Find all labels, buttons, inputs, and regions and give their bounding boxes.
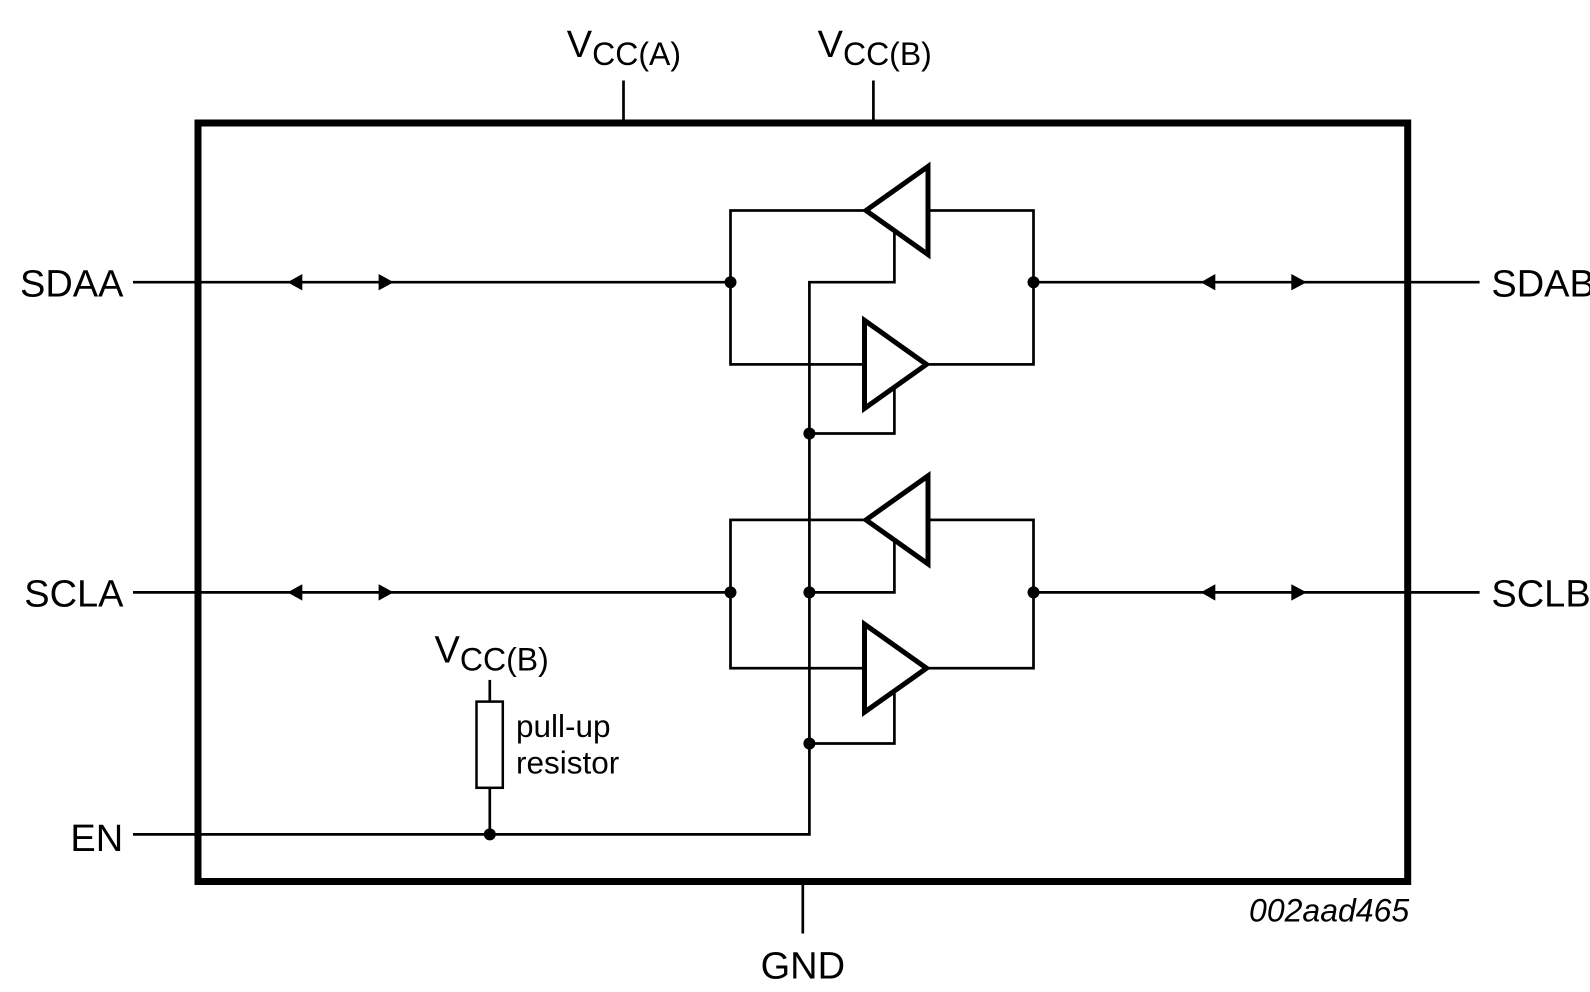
wire resistor to EN line <box>488 788 491 835</box>
arrowhead SDAB right <box>1291 274 1306 290</box>
wire SCLA (pin A side, y=592) <box>133 591 731 594</box>
pin stub VCC(B) <box>872 81 875 124</box>
wire SDA lower buffer enable return <box>809 372 894 434</box>
junction dot SDAA node <box>725 276 737 288</box>
svg-text:SDAB: SDAB <box>1491 263 1590 305</box>
junction dot enable net SDA return <box>803 428 815 440</box>
junction dot SCLB node <box>1028 586 1040 598</box>
svg-text:pull-up: pull-up <box>516 708 611 744</box>
pin stub GND <box>801 882 804 934</box>
wire SDA buffer loop rectangle <box>731 211 1034 365</box>
junction dot EN / resistor <box>484 828 496 840</box>
junction dot SDAB node <box>1028 276 1040 288</box>
svg-text:GND: GND <box>761 946 845 988</box>
arrowhead SCLA right <box>379 584 394 600</box>
pin stub VCC(A) <box>622 81 625 124</box>
junction dot SCLA node <box>725 586 737 598</box>
pull-up resistor body <box>477 702 503 788</box>
wire SCLB (pin B side, y=592) <box>1034 591 1480 594</box>
wire jog SCL upper buffer enable <box>809 535 894 592</box>
wire VCC(B) stub above resistor <box>488 680 491 702</box>
arrowhead SCLA left <box>288 584 303 600</box>
wire EN with enable net vertical and jog to SDA upper buffer enable <box>133 225 894 834</box>
buffer amp A4 (SCL, A-to-B, points right) <box>865 624 927 712</box>
arrowhead SDAA right <box>379 274 394 290</box>
buffer amp A1 (SDA, B-to-A, points left) <box>866 167 928 255</box>
IC outline box <box>198 123 1408 882</box>
junction dot enable net SCL return <box>803 738 815 750</box>
svg-text:SCLB: SCLB <box>1491 573 1590 615</box>
wire SCL buffer loop rectangle <box>731 520 1034 668</box>
svg-text:EN: EN <box>70 818 123 860</box>
svg-text:resistor: resistor <box>516 745 619 781</box>
svg-text:SCLA: SCLA <box>24 573 124 615</box>
arrowhead SDAA left <box>288 274 303 290</box>
arrowhead SCLB right <box>1291 584 1306 600</box>
wire SCL lower buffer enable return <box>809 676 894 744</box>
wire SDAB (pin B side, y=282) <box>1034 281 1480 284</box>
arrowhead SDAB left <box>1201 274 1216 290</box>
buffer amp A3 (SCL, B-to-A, points left) <box>866 476 928 564</box>
buffer amp A2 (SDA, A-to-B, points right) <box>865 320 927 408</box>
arrowhead SCLB left <box>1201 584 1216 600</box>
wire SDAA (pin A side, y=282) <box>133 281 731 284</box>
junction dot enable net at SCL jog <box>803 586 815 598</box>
svg-text:SDAA: SDAA <box>20 263 124 305</box>
svg-text:002aad465: 002aad465 <box>1249 893 1409 929</box>
